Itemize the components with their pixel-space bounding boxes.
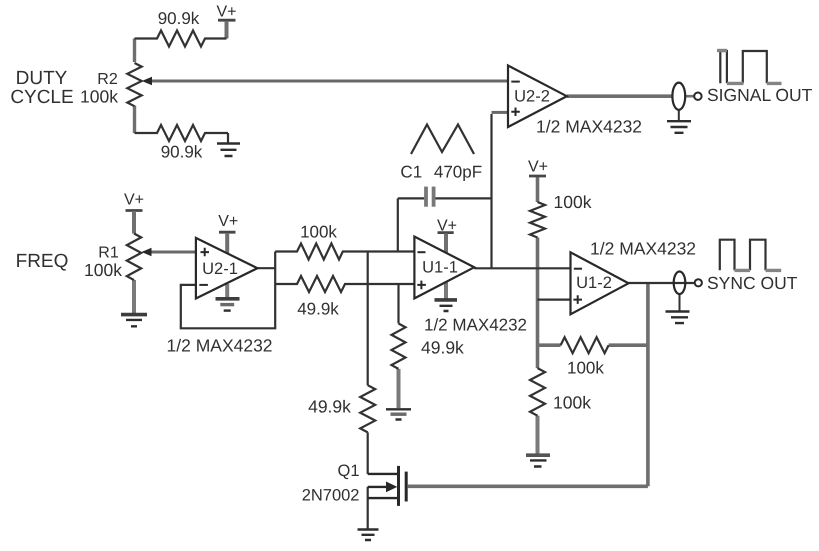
svg-text:U1-2: U1-2 — [576, 274, 612, 292]
svg-text:100k: 100k — [553, 393, 591, 413]
svg-text:100k: 100k — [84, 260, 122, 280]
svg-text:90.9k: 90.9k — [158, 9, 200, 28]
svg-text:SYNC OUT: SYNC OUT — [707, 273, 798, 293]
svg-text:100k: 100k — [567, 358, 604, 377]
svg-text:100k: 100k — [300, 222, 337, 241]
svg-text:SIGNAL OUT: SIGNAL OUT — [707, 85, 813, 105]
svg-text:V+: V+ — [528, 159, 548, 176]
svg-text:470pF: 470pF — [434, 163, 482, 182]
svg-text:1/2 MAX4232: 1/2 MAX4232 — [424, 316, 527, 335]
svg-text:90.9k: 90.9k — [161, 143, 203, 162]
svg-text:49.9k: 49.9k — [297, 299, 339, 318]
svg-text:R2: R2 — [97, 71, 118, 88]
svg-text:100k: 100k — [80, 87, 118, 107]
svg-text:C1: C1 — [400, 163, 422, 182]
svg-text:CYCLE: CYCLE — [10, 87, 73, 108]
svg-text:U2-1: U2-1 — [202, 260, 238, 278]
svg-text:V+: V+ — [216, 4, 236, 21]
svg-text:V+: V+ — [218, 213, 238, 230]
svg-text:V+: V+ — [124, 192, 144, 209]
svg-text:100k: 100k — [554, 192, 592, 212]
svg-text:1/2 MAX4232: 1/2 MAX4232 — [536, 117, 642, 137]
svg-text:DUTY: DUTY — [16, 68, 68, 89]
svg-text:FREQ: FREQ — [16, 251, 69, 272]
svg-text:49.9k: 49.9k — [421, 338, 464, 358]
svg-text:Q1: Q1 — [337, 462, 359, 480]
svg-text:1/2 MAX4232: 1/2 MAX4232 — [167, 336, 273, 356]
svg-text:49.9k: 49.9k — [308, 397, 351, 417]
svg-text:2N7002: 2N7002 — [302, 487, 360, 505]
svg-text:U2-2: U2-2 — [514, 88, 550, 106]
svg-text:U1-1: U1-1 — [422, 259, 458, 277]
svg-text:1/2 MAX4232: 1/2 MAX4232 — [590, 239, 696, 259]
svg-text:V+: V+ — [437, 218, 457, 235]
svg-text:R1: R1 — [98, 245, 119, 262]
